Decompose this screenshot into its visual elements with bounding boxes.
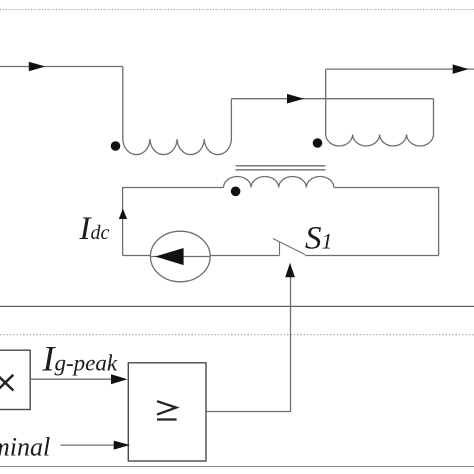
polarity dot L2 <box>313 138 323 148</box>
wire multiplier to comparator <box>30 378 112 380</box>
arrow into comparator top <box>111 374 128 384</box>
wire L2 right drop <box>433 99 435 135</box>
inductor L1 primary winding <box>123 139 232 155</box>
comparator block <box>128 363 206 461</box>
polarity dot L1 <box>111 141 121 151</box>
arrow current out <box>453 64 469 74</box>
wire middle horizontal <box>231 98 433 100</box>
switch S1 <box>273 239 305 256</box>
boundary solid line <box>0 305 474 307</box>
multiplier block <box>0 350 30 409</box>
label comparator gte <box>157 401 177 419</box>
current source Idc <box>150 231 210 282</box>
label multiply x <box>0 375 13 391</box>
arrow into comparator bottom <box>114 441 130 450</box>
wire source to switch <box>210 255 279 257</box>
svg-text:S1: S1 <box>305 221 333 257</box>
wire L2 left riser <box>325 69 327 134</box>
wire switch to right <box>305 255 439 257</box>
wire nominal to comparator <box>61 444 115 446</box>
wire input left <box>0 66 123 68</box>
wire output top right <box>326 68 474 70</box>
polarity dot L3 <box>231 187 241 197</box>
inductor L2 output winding <box>326 135 434 146</box>
inductor L3 secondary winding <box>224 177 334 188</box>
wire dc loop left side <box>123 188 224 256</box>
arrow Idc direction up <box>119 209 127 219</box>
wire dc loop bottom left <box>123 255 151 257</box>
boundary dotted line <box>0 334 474 336</box>
arrow gate drive <box>285 263 295 278</box>
wire primary left drop <box>122 67 124 140</box>
svg-text:Idc: Idc <box>79 211 110 247</box>
transformer core lines <box>236 166 326 170</box>
arrow current middle <box>287 94 304 104</box>
svg-text:minal: minal <box>0 433 50 462</box>
svg-text:Ig-peak: Ig-peak <box>42 338 118 378</box>
wire L1 riser <box>230 99 232 139</box>
gate drive wire up to switch <box>206 277 291 412</box>
wire dc loop top right <box>334 188 438 256</box>
arrow current in <box>29 62 46 72</box>
